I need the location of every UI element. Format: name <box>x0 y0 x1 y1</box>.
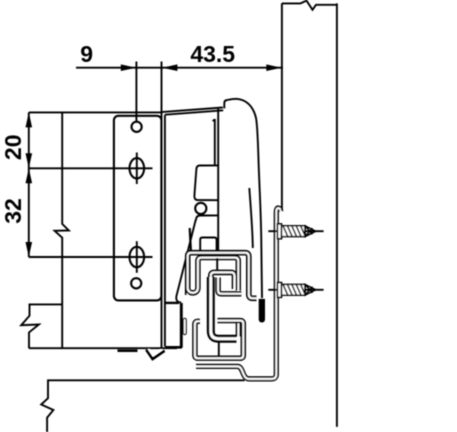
divider stub lower box <box>218 342 220 357</box>
bracket hole bottom circle <box>131 278 141 288</box>
wood bottom edge <box>29 347 177 349</box>
J bar lower with elbow <box>211 277 237 339</box>
wood side panel left edge with break <box>55 112 69 348</box>
inner box bottom wall with left riser <box>218 278 241 294</box>
arrow up below oval1 <box>26 168 33 183</box>
svg-text:43.5: 43.5 <box>190 41 235 67</box>
nose left edge <box>217 109 219 251</box>
svg-text:20: 20 <box>0 135 26 161</box>
foot top edge <box>196 215 218 220</box>
nose outline <box>224 99 262 298</box>
center dots oval1 <box>135 167 139 169</box>
left lower box right wall (dark) <box>180 303 183 348</box>
extension line bracket edge <box>161 62 163 113</box>
arrow left at ext2 <box>162 64 177 71</box>
screw 1 head <box>277 224 281 239</box>
bottom long line <box>41 380 244 432</box>
horizontal dimension line <box>76 67 283 69</box>
left lower box bottom wall <box>165 346 182 349</box>
cabinet panel top with break <box>282 1 337 10</box>
bracket top flange slant (double) <box>162 108 224 115</box>
bracket oval hole 2 <box>130 247 145 267</box>
flange with bottom step <box>196 208 281 379</box>
center dots oval2 <box>135 256 139 258</box>
bracket right edge lower <box>161 112 163 348</box>
tab on outer box top <box>200 238 216 251</box>
cabinet panel left edge <box>281 3 283 210</box>
outer box (upper channel) <box>188 253 257 299</box>
cabinet panel right edge <box>336 3 338 427</box>
bracket bottom tab <box>118 349 138 352</box>
nose inner line right <box>249 188 253 248</box>
bracket right edge second line <box>164 115 166 347</box>
extension line hole center <box>135 62 137 122</box>
bracket hole top circle <box>132 122 142 132</box>
left lower box top wall <box>165 302 179 304</box>
nose inner lip <box>213 120 215 165</box>
extension line oval2 center <box>29 256 153 258</box>
screw 1 shank <box>282 226 316 237</box>
drawer bottom board with break <box>21 304 62 348</box>
screw 1 centerline <box>268 230 323 232</box>
screw 2 head <box>277 283 281 298</box>
arrow down at oval2 <box>26 242 33 257</box>
arrow up at top <box>26 112 33 127</box>
inner box top and right wall <box>198 258 238 291</box>
arrow down at oval1 <box>26 153 33 168</box>
screw 2 shank <box>282 284 316 295</box>
screw 2 centerline <box>268 289 323 291</box>
oval2 vertical crosshair <box>136 241 138 273</box>
wood side panel top edge <box>29 111 162 113</box>
bracket bottom hook inner white <box>148 349 161 356</box>
vertical dimension line <box>28 112 30 257</box>
J upper arm with right hook down <box>211 272 235 289</box>
divider stub upper box <box>216 258 218 270</box>
bracket plate <box>114 116 161 301</box>
ear (hook plate) <box>194 165 218 200</box>
arrow right at ext1 <box>121 64 136 71</box>
oval1 vertical crosshair <box>136 153 138 185</box>
small tab on right wall <box>183 320 187 333</box>
extension line oval1 center <box>29 167 153 169</box>
svg-text:9: 9 <box>80 41 93 67</box>
short wall above outer box <box>190 228 191 251</box>
outer box left hem <box>188 288 198 293</box>
black rivet bar <box>259 299 265 323</box>
svg-text:32: 32 <box>0 198 26 224</box>
bracket bottom hook V <box>146 350 164 359</box>
arrow right at panel <box>266 64 281 71</box>
bracket oval hole 1 <box>130 158 145 178</box>
foot left slant <box>176 220 196 303</box>
circle detent <box>195 203 206 214</box>
J arm end riser <box>236 323 241 337</box>
lower box with top curl <box>195 321 243 359</box>
